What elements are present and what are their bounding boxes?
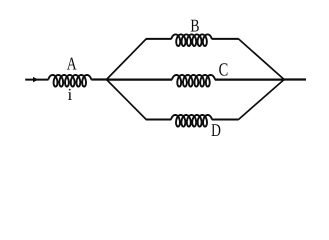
wire output right [284,78,306,80]
svg-text:A: A [67,54,77,74]
svg-text:D: D [211,120,221,140]
label D [211,120,221,140]
wire bottom branch left horizontal [146,119,171,121]
inductor D [171,115,212,127]
arrowhead current direction [33,77,39,82]
svg-text:B: B [190,15,199,35]
inductor C [172,75,215,87]
wire coil C to right junction [215,78,284,80]
wire diagonal top branch down to right junction [239,39,285,80]
inductor B [171,34,212,46]
label B [190,15,199,35]
wire A to left junction [91,78,107,80]
inductor A [48,75,91,87]
wire diagonal bottom branch up to right junction [239,80,285,120]
label A [67,54,77,74]
wire bottom branch right horizontal [212,119,239,121]
label C [219,61,229,81]
label i [68,85,73,104]
wire middle branch left junction to coil C [107,78,173,80]
wire diagonal left junction up to top branch [107,39,147,80]
svg-text:i: i [68,85,73,104]
wire diagonal left junction down to bottom branch [107,80,147,120]
svg-text:C: C [219,61,229,81]
wire input left [25,79,48,81]
wire top branch left horizontal [146,38,172,40]
wire top branch right horizontal [212,38,239,40]
